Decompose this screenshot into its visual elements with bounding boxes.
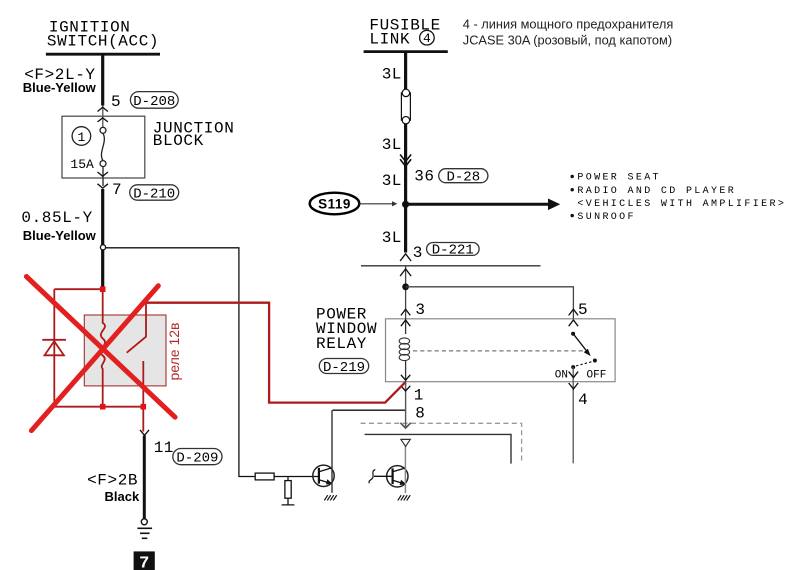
svg-text:D-210: D-210: [133, 187, 175, 203]
svg-text:0.85L-Y: 0.85L-Y: [21, 209, 92, 227]
svg-text:11: 11: [154, 439, 174, 457]
svg-text:3: 3: [415, 301, 425, 319]
svg-text:<VEHICLES WITH AMPLIFIER>: <VEHICLES WITH AMPLIFIER>: [577, 199, 786, 210]
svg-text:OFF: OFF: [587, 369, 607, 381]
svg-text:LINK: LINK: [369, 31, 410, 49]
svg-text:BLOCK: BLOCK: [153, 132, 204, 150]
svg-text:3: 3: [413, 244, 423, 262]
svg-text:4: 4: [423, 31, 431, 46]
svg-text:4 - линия мощного предохраните: 4 - линия мощного предохранителя: [463, 17, 674, 32]
svg-text:7: 7: [112, 181, 122, 199]
svg-text:3L: 3L: [382, 172, 402, 190]
svg-text:3L: 3L: [382, 229, 402, 247]
svg-text:D-208: D-208: [133, 94, 175, 110]
svg-text:1: 1: [77, 130, 85, 145]
svg-text:Blue-Yellow: Blue-Yellow: [23, 228, 97, 243]
svg-text:RELAY: RELAY: [316, 335, 367, 353]
svg-text:4: 4: [578, 391, 588, 409]
svg-text:5: 5: [111, 93, 121, 111]
svg-text:RADIO AND CD PLAYER: RADIO AND CD PLAYER: [577, 186, 736, 197]
svg-text:3L: 3L: [382, 65, 402, 83]
svg-text:S119: S119: [318, 196, 351, 211]
svg-text:реле 12в: реле 12в: [166, 323, 182, 381]
svg-text:Blue-Yellow: Blue-Yellow: [23, 80, 97, 95]
svg-text:3L: 3L: [382, 136, 402, 154]
svg-text:7: 7: [139, 554, 149, 570]
svg-text:D-219: D-219: [323, 360, 365, 376]
svg-text:36: 36: [414, 168, 434, 186]
svg-text:POWER SEAT: POWER SEAT: [577, 173, 661, 184]
svg-text:ON: ON: [555, 369, 568, 381]
svg-text:15A: 15A: [70, 157, 94, 172]
svg-text:<F>2B: <F>2B: [87, 471, 138, 489]
svg-text:D-221: D-221: [432, 242, 474, 258]
svg-text:D-209: D-209: [176, 451, 218, 467]
svg-text:8: 8: [415, 405, 425, 423]
svg-text:1: 1: [414, 386, 424, 404]
svg-text:SWITCH(ACC): SWITCH(ACC): [47, 32, 159, 50]
svg-text:SUNROOF: SUNROOF: [577, 212, 635, 223]
svg-text:5: 5: [578, 301, 588, 319]
svg-text:JCASE 30A (розовый, под капото: JCASE 30A (розовый, под капотом): [463, 33, 672, 48]
svg-text:Black: Black: [105, 489, 140, 504]
svg-text:D-28: D-28: [446, 170, 480, 186]
